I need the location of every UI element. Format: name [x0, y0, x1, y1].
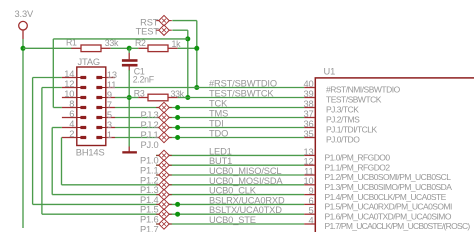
JTAG pin pads row 12/11 [77, 87, 86, 89]
svg-text:TDO: TDO [209, 129, 228, 139]
wire JTAG pin row 77.5 to vertical [33, 77, 62, 79]
svg-text:14: 14 [64, 69, 74, 79]
svg-text:TEST/SBWTCK: TEST/SBWTCK [326, 95, 382, 105]
JTAG pin pads row 10/9 [77, 97, 86, 99]
wire 3.3V to R1 [23, 47, 72, 49]
net TEST/SBWTCK [115, 97, 129, 99]
pin 14 stub [62, 77, 77, 79]
svg-text:39: 39 [303, 89, 313, 99]
svg-text:5: 5 [308, 206, 313, 216]
net P1.3 / UCB0_MOSI/SDA [62, 184, 305, 186]
junction 3.3V / R1 row [21, 46, 26, 51]
JTAG pin pads row 4/3 [77, 127, 86, 129]
svg-text:P1.3: P1.3 [140, 185, 159, 195]
wire node to C1 [128, 48, 130, 53]
net TDO [115, 137, 304, 139]
U1 pin 5 stub [304, 213, 315, 215]
svg-text:LED1: LED1 [209, 146, 232, 156]
net #RST/SBWTDIO [115, 87, 304, 89]
svg-text:#RST/SBWTDIO: #RST/SBWTDIO [209, 79, 277, 89]
junction node R1/R2/C1 [127, 46, 132, 51]
ground symbol [128, 147, 130, 152]
wire 3.3V vertical rail [22, 39, 24, 228]
pin 10 stub [62, 97, 77, 99]
pin 3 stub [106, 127, 115, 129]
svg-text:38: 38 [303, 99, 313, 109]
junction on TCK row [175, 105, 180, 110]
junction on BSLRX/UCA0RXD row [175, 202, 180, 207]
svg-text:R3: R3 [134, 88, 145, 98]
wire node to R2 [129, 47, 138, 49]
svg-text:U1: U1 [324, 67, 336, 77]
svg-text:12: 12 [64, 79, 74, 89]
pin 5 stub [106, 117, 115, 119]
svg-text:PJ.3/TCK: PJ.3/TCK [326, 105, 359, 115]
wire R1 to node [111, 47, 130, 49]
wire JTAG pin row 137.5 to vertical [61, 137, 63, 139]
wire TEST testpoint to corner [172, 29, 188, 31]
net TCK [115, 107, 304, 109]
pin 11 stub [106, 87, 115, 89]
pin 7 stub [106, 107, 115, 109]
resistor R1 [71, 47, 81, 49]
JTAG pin pads row 14/13 [77, 77, 86, 79]
net P1.7 / UCB0_STE [156, 223, 304, 225]
svg-text:PJ.3: PJ.3 [140, 110, 158, 120]
U1 pin 40 stub [304, 87, 315, 89]
U1 pin 35 stub [304, 137, 315, 139]
svg-text:13: 13 [107, 70, 117, 80]
pin 4 stub [62, 127, 77, 129]
U1 pin 36 stub [304, 127, 315, 129]
U1 pin 39 stub [304, 97, 315, 99]
svg-text:TEST: TEST [136, 26, 160, 36]
junction on TDO row [175, 135, 180, 140]
svg-text:P1.1: P1.1 [140, 166, 159, 176]
svg-text:13: 13 [303, 147, 313, 157]
svg-text:6: 6 [308, 196, 313, 206]
junction C1 wire / JTAG pin 9 row [127, 95, 132, 100]
JTAG pin pads row 6/5 [77, 117, 86, 119]
junction on TMS row [175, 115, 180, 120]
pin 6 stub [62, 117, 77, 119]
svg-text:UCB0_CLK: UCB0_CLK [209, 186, 257, 196]
svg-text:#RST/NMI/SBWTDIO: #RST/NMI/SBWTDIO [326, 85, 401, 95]
wire vertical x=61.5 [61, 138, 63, 185]
U1 pin 6 stub [304, 203, 315, 205]
net P1.6 / BSLTX/UCA0TXD [42, 213, 304, 215]
svg-text:10: 10 [303, 176, 313, 186]
pin 12 stub [62, 87, 77, 89]
svg-text:UCB0_MOSI/SDA: UCB0_MOSI/SDA [209, 176, 283, 186]
wire JTAG pin row 87.5 to vertical [42, 87, 62, 89]
wire C1 to ground [128, 70, 130, 147]
svg-text:40: 40 [303, 79, 313, 89]
wire R2 to RST net [178, 47, 197, 49]
svg-text:10: 10 [64, 89, 74, 99]
U1 pin 9 stub [304, 194, 315, 196]
junction RST / pin40 row [194, 85, 199, 90]
JTAG pin pads row 8/7 [77, 107, 86, 109]
net P1.5 / BSLRX/UCA0RXD [33, 203, 305, 205]
U1 pin 11 stub [304, 174, 315, 176]
svg-text:TEST/SBWTCK: TEST/SBWTCK [209, 89, 274, 99]
U1 pin 13 stub [304, 154, 315, 156]
junction TEST / pin39 row [185, 95, 190, 100]
wire RST vertical [196, 21, 198, 88]
svg-text:7: 7 [107, 100, 112, 110]
U1 pin 37 stub [304, 117, 315, 119]
svg-text:8: 8 [69, 99, 74, 109]
svg-text:36: 36 [303, 119, 313, 129]
svg-text:PJ.2: PJ.2 [140, 120, 158, 130]
svg-text:1k: 1k [172, 39, 182, 49]
svg-text:35: 35 [303, 129, 313, 139]
svg-text:2: 2 [69, 129, 74, 139]
pin C1 bottom [128, 67, 130, 72]
svg-text:BSLRX/UCA0RXD: BSLRX/UCA0RXD [209, 195, 285, 205]
svg-text:P1.2/PM_UCB0SOMI/PM_UCB0SCL: P1.2/PM_UCB0SOMI/PM_UCB0SCL [325, 172, 452, 182]
svg-text:P1.3/PM_UCB0SIMO/PM_UCB0SDA: P1.3/PM_UCB0SIMO/PM_UCB0SDA [325, 182, 453, 192]
svg-text:P1.4/PM_UCB0CLK/PM_UCA0STE: P1.4/PM_UCB0CLK/PM_UCA0STE [325, 192, 447, 202]
svg-text:BH14S: BH14S [76, 147, 105, 157]
pin 2 stub [62, 137, 77, 139]
svg-text:2.2nF: 2.2nF [133, 74, 155, 84]
svg-text:P1.6: P1.6 [140, 215, 159, 225]
wire to JTAG pin 8 [53, 107, 62, 109]
junction on TDI row [175, 125, 180, 130]
svg-text:TCK: TCK [209, 99, 228, 109]
JTAG pin pads row 2/1 [77, 137, 86, 139]
U1 pin 38 stub [304, 107, 315, 109]
pin 9 stub [106, 97, 115, 99]
net P1.0 / LED1 [156, 154, 304, 156]
svg-text:UCB0_MISO/SCL: UCB0_MISO/SCL [209, 166, 281, 176]
svg-text:PJ.2/TMS: PJ.2/TMS [326, 115, 360, 125]
svg-text:9: 9 [107, 90, 112, 100]
svg-text:4: 4 [308, 215, 313, 225]
svg-text:P1.5/PM_UCA0RXD/PM_UCA0SOMI: P1.5/PM_UCA0RXD/PM_UCA0SOMI [325, 202, 453, 212]
wire TEST rail [53, 38, 188, 40]
svg-text:12: 12 [303, 157, 313, 167]
svg-text:11: 11 [107, 80, 116, 90]
svg-text:4: 4 [69, 119, 74, 129]
svg-text:5: 5 [107, 110, 112, 120]
svg-text:9: 9 [308, 186, 313, 196]
pin 13 stub [106, 77, 115, 79]
svg-text:JTAG: JTAG [78, 57, 100, 67]
svg-text:TMS: TMS [209, 109, 228, 119]
svg-text:11: 11 [304, 166, 313, 176]
wire rail down to JTAG pin 8 [52, 39, 54, 108]
svg-text:P1.0: P1.0 [140, 156, 159, 166]
svg-text:BUT1: BUT1 [209, 156, 232, 166]
pin 1 stub [106, 137, 115, 139]
svg-text:P1.1/PM_RFGDO2: P1.1/PM_RFGDO2 [325, 162, 391, 172]
svg-text:P1.0/PM_RFGDO0: P1.0/PM_RFGDO0 [325, 153, 391, 163]
svg-text:UCB0_STE: UCB0_STE [209, 215, 256, 225]
junction RST / R2 [194, 46, 199, 51]
junction on BSLTX/UCA0TXD row [175, 212, 180, 217]
wire vertical x=32.6 [32, 78, 34, 205]
svg-text:3.3V: 3.3V [15, 9, 34, 19]
svg-text:P1.4: P1.4 [140, 195, 159, 205]
net P1.1 / BUT1 [156, 164, 304, 166]
net TDI [115, 127, 304, 129]
wire vertical x=41.9 [41, 88, 43, 215]
svg-text:PJ.0/TDO: PJ.0/TDO [326, 135, 360, 145]
svg-text:P1.7/PM_UCA0CLK/PM_UCB0STE/(RO: P1.7/PM_UCA0CLK/PM_UCB0STE/(ROSC) [325, 221, 471, 231]
svg-text:BSLTX/UCA0TXD: BSLTX/UCA0TXD [209, 205, 282, 215]
svg-text:R2: R2 [135, 38, 146, 48]
U1 pin 10 stub [304, 184, 315, 186]
resistor R2 [138, 47, 148, 49]
svg-text:6: 6 [69, 109, 74, 119]
svg-text:P1.2: P1.2 [140, 175, 159, 185]
svg-text:P1.7: P1.7 [140, 224, 159, 232]
svg-text:PJ.1: PJ.1 [140, 130, 158, 140]
svg-text:P1.5: P1.5 [140, 205, 159, 215]
svg-text:37: 37 [303, 109, 313, 119]
U1 pin 4 stub [304, 223, 315, 225]
svg-text:PJ.0: PJ.0 [140, 140, 158, 150]
svg-text:3: 3 [107, 120, 112, 130]
svg-text:1: 1 [107, 130, 112, 140]
net TMS [115, 117, 304, 119]
svg-text:PJ.1/TDI/TCLK: PJ.1/TDI/TCLK [326, 125, 377, 135]
wire TEST vertical [187, 30, 189, 97]
resistor R3 [138, 97, 148, 99]
svg-text:P1.6/PM_UCA0TXD/PM_UCA0SIMO: P1.6/PM_UCA0TXD/PM_UCA0SIMO [325, 211, 452, 221]
wire RST testpoint to corner [172, 20, 197, 22]
net P1.2 / UCB0_MISO/SCL [156, 174, 304, 176]
pin 8 stub [62, 107, 77, 109]
wire vertical x=52.2 [51, 128, 53, 195]
U1 pin 12 stub [304, 164, 315, 166]
svg-text:TDI: TDI [209, 119, 224, 129]
wire JTAG pin row 127.5 to vertical [52, 127, 62, 129]
junction TEST / rail [185, 36, 190, 41]
pin of 3.3V supply [22, 30, 24, 39]
net P1.4 / UCB0_CLK [52, 194, 304, 196]
